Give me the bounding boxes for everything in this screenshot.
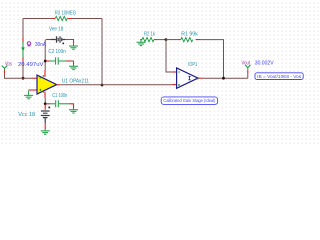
ammeter indicator for IB [27,42,30,46]
svg-text:C2 100n: C2 100n [48,49,65,55]
ground at Vee battery [69,40,78,49]
svg-text:Vcc 18: Vcc 18 [18,112,35,118]
wire top feedback horizontal [23,18,102,20]
wire left vertical lower [22,61,24,78]
voltage pin Vout [245,65,251,73]
svg-text:20.497uV: 20.497uV [18,62,44,68]
wire Vee to ground [69,39,74,42]
wire U1 V- to Vcc node [44,98,46,104]
wire Vos to U1 inverting input [5,74,33,79]
wire C1 to ground [72,103,74,106]
battery Vcc 18 [41,105,50,130]
junction R2-R1 node [165,38,168,41]
junction feedback-output [101,84,104,87]
resistor R3 [52,16,72,20]
svg-text:30.002V: 30.002V [255,60,274,66]
svg-text:Vos: Vos [5,62,12,68]
ground at Vcc battery [41,129,50,134]
wire R1 to output node [200,40,224,79]
svg-text:U1 OPAx211: U1 OPAx211 [62,78,89,84]
pin IOP1 output [197,77,199,79]
svg-text:Vee 18: Vee 18 [49,27,63,33]
op-amp U1 [37,75,57,94]
junction output-feedback node [222,77,225,80]
svg-text:C1 100n: C1 100n [52,93,67,99]
wire R2 to junction [157,39,167,41]
annotation box Calibrated Gain Stage [161,97,217,105]
junction C1 tap [44,102,47,105]
wire C2 to ground [71,61,74,62]
svg-text:R1 99k: R1 99k [181,31,198,37]
svg-text:IB = Vout/10E8 - Vos: IB = Vout/10E8 - Vos [257,74,302,79]
polarity mark Vcc [48,107,50,109]
current source IB 30nA [21,38,25,62]
pin U1 noninverting input [29,89,37,91]
junction IB-Vos node [22,77,25,80]
pin IOP1 inverting input [172,71,176,73]
pin U1 V- supply [44,92,46,98]
op-amp IOP1 ideal [177,68,198,88]
wire supply column upper [44,40,46,71]
pin U1 V+ supply [44,70,46,77]
wire feedback vertical right [101,19,103,86]
pin U1 output [57,84,61,86]
capacitor C2 [46,57,71,64]
wire left vertical upper [22,19,24,38]
svg-text:30nA: 30nA [35,42,46,48]
wire U1 output row [60,84,172,86]
svg-text:R3 10MEG: R3 10MEG [55,10,76,16]
resistor R2 [142,37,157,41]
svg-text:R2 1k: R2 1k [144,31,155,37]
wire IOP1 output row [203,77,248,79]
wire to Vout pin [247,73,249,78]
ground at U1 noninverting input [24,91,33,99]
pin IOP1 noninverting input [172,84,176,86]
resistor R1 [179,37,200,41]
capacitor C1 [46,100,73,107]
svg-text:IOP1: IOP1 [188,62,197,68]
voltage pin Vos [2,66,8,74]
junction C2 tap [44,60,47,63]
ground at C1 [69,104,78,113]
wire junction to IOP1 inverting input [166,40,172,72]
wire junction to R1 [166,39,179,41]
pin U1 inverting input [32,77,37,79]
battery Vee 18 [46,36,69,44]
svg-text:Calibrated Gain Stage (Ideal): Calibrated Gain Stage (Ideal) [163,98,215,103]
annotation box IB formula [255,73,303,80]
ground at R2 [137,40,146,46]
ground at C2 [69,62,78,70]
svg-text:Vout: Vout [242,60,251,66]
